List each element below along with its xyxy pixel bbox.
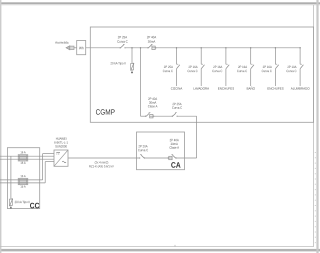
breaker Q9 2P 20A Curva C [138, 145, 148, 159]
label CGMP [96, 109, 115, 114]
wire drop to RCD ID2 [141, 115, 146, 117]
RCD ID3 2P 40A 30mA Clase A [168, 139, 180, 160]
wire string 2 positive [0, 154, 54, 180]
surge protector SPD2 20 kA Tipo II [9, 199, 12, 209]
branch breaker Q3 2P 16A Curva C -> LAVADORA [188, 47, 205, 86]
energy meter Wh [77, 41, 86, 55]
wire main bus [156, 47, 300, 49]
top page edge band [0, 2, 320, 5]
label 20 kA Tipo II (DC) [15, 201, 30, 204]
branch breaker Q5 2P 16A Curva C -> BA&#209;O [237, 47, 254, 86]
label Acometida [55, 41, 68, 43]
wire ID3 to Q9 [145, 157, 169, 159]
sheet border tick marks [314, 152, 316, 246]
label fuse F1 rating bottom [21, 162, 26, 164]
branch breaker Q4 2P 16A Curva C -> ENCHUFES [212, 47, 229, 86]
fuse F2 16A string 2 [18, 178, 28, 184]
wire ID2 to Q8 [154, 115, 173, 117]
acometida arrow [66, 46, 74, 50]
label 20 kA Tipo II [111, 62, 126, 65]
label circuit LAVADORA [194, 87, 209, 89]
label circuit COCINA [171, 87, 182, 89]
label fuse F2 rating bottom [21, 185, 26, 187]
inverter U1 DC/AC [54, 150, 68, 166]
panel box CGMP [90, 27, 313, 122]
breaker Q1 2P 25A Curva C [117, 36, 127, 49]
wire Q1 to RCD ID1 [125, 47, 148, 49]
wire string 1 positive [0, 155, 54, 157]
wire CA feed drop [140, 48, 142, 116]
bottom page edge band [0, 249, 320, 252]
wire SPD drop [131, 48, 133, 63]
wire string 2 negative [0, 162, 54, 183]
wire arrow to meter [74, 47, 77, 49]
left page edge band [0, 0, 1, 253]
panel box CA [137, 132, 185, 170]
wire AC line inverter to CA [68, 157, 140, 159]
right page edge band [316, 0, 318, 253]
label fuse F2 rating top [21, 175, 26, 177]
surge protector SPD1 20 kA Tipo II [131, 63, 134, 73]
breaker Q8 2P 25A Curva C [172, 103, 182, 117]
node CA feed tap [140, 47, 142, 49]
panel box CC [7, 148, 39, 209]
label circuit BA&#209;O [247, 87, 255, 90]
label inverter HUAWEI SUN2000 [54, 138, 67, 148]
wire meter to CGMP breaker [86, 47, 120, 49]
wire string 1 negative [0, 158, 54, 160]
label CC [30, 203, 39, 209]
RCD ID1 2P 40A 30mA [147, 36, 157, 50]
branch breaker Q2 2P 25A Curva C -> COCINA [163, 47, 180, 86]
label circuit ENCHUFES [268, 87, 284, 89]
sheet border bottom line [0, 246, 314, 248]
sheet border bottom fold tick [174, 245, 176, 247]
wire Q8 down to CA panel [176, 116, 197, 158]
sheet border right line [313, 5, 315, 247]
label AC cable [89, 161, 114, 168]
branch breaker Q6 2P 16A Curva C -> ENCHUFES [262, 47, 279, 86]
RCD ID2 2P 40A 30mA Clase A [146, 98, 158, 118]
label circuit ENCHUFES [218, 87, 234, 89]
wire SPD2 riser [10, 156, 12, 199]
label fuse F1 rating top [21, 151, 26, 153]
label CA [171, 162, 180, 168]
fuse F1 16A string 1 [18, 155, 28, 161]
branch breaker Q7 2P 10A Curva C -> ALUMBRADO [286, 47, 303, 86]
node SPD tap [131, 47, 133, 49]
label circuit ALUMBRADO [291, 87, 310, 89]
